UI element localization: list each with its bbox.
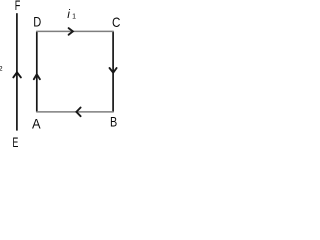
svg-text:1: 1 [72,13,76,20]
svg-text:i: i [67,7,70,21]
arrowhead on right edge (pointing down, C to B) [110,68,117,73]
svg-text:C: C [112,14,120,30]
svg-text:D: D [33,15,41,30]
arrowhead on left edge (pointing up, A to D) [34,74,40,79]
arrowhead current i2 (upward on wire EF) [13,72,21,77]
loop side DC (top edge of square loop) [36,30,114,32]
arrowhead on bottom edge (pointing left, B to A) [76,108,80,117]
svg-text:2: 2 [0,64,3,73]
svg-text:E: E [12,134,18,150]
loop side DA (left edge of square loop) [36,31,38,112]
loop side CB (right edge of square loop) [112,31,114,112]
arrowhead current i1 on top edge (pointing right, D to C) [69,28,73,35]
wire EF (long straight conductor) [16,13,18,130]
svg-text:F: F [15,0,21,13]
svg-text:A: A [32,115,41,131]
loop side AB (bottom edge of square loop) [36,111,114,113]
svg-text:B: B [110,114,117,130]
